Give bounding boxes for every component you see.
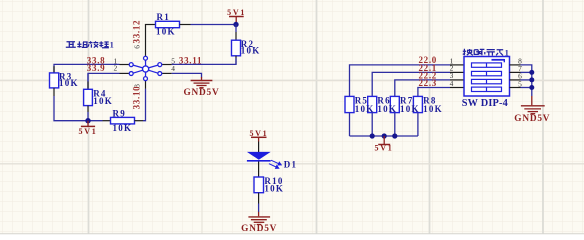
pin R3 bottom + wire to bottom rail — [53, 88, 55, 96]
svg-text:10K: 10K — [423, 104, 443, 114]
wire net 33.8 — [54, 64, 120, 73]
pin 3 stub of joystick — [145, 81, 147, 89]
pin R3 top — [53, 66, 55, 73]
wire net 22.2 — [395, 80, 450, 97]
label DIP switch (Chinese) 拨码开关1 — [463, 49, 503, 56]
svg-text:GND5V: GND5V — [514, 114, 550, 124]
svg-text:D1: D1 — [284, 160, 298, 170]
wire R1 to 5V1 junction — [191, 24, 237, 26]
junction dot pin7 — [529, 70, 534, 75]
LED D1 emission arrow 1 — [271, 160, 281, 165]
pin R4 top — [87, 82, 89, 90]
resistor R9 — [111, 117, 135, 124]
wire net 33.10 — [143, 89, 146, 121]
resistor R8 — [413, 96, 422, 112]
pin 5 stub of joystick — [162, 64, 172, 66]
ground GND5V (left block) — [191, 77, 213, 88]
svg-text:GND5V: GND5V — [183, 88, 219, 98]
wire R4 to bottom rail — [87, 112, 89, 121]
joystick center circle — [143, 66, 149, 72]
svg-text:33.9: 33.9 — [87, 63, 106, 73]
ground GND5V (DIP block) — [521, 96, 545, 114]
svg-text:33.11: 33.11 — [179, 55, 202, 65]
pin R2 top — [235, 32, 237, 40]
svg-text:4: 4 — [171, 64, 175, 73]
wire net 33.12 vertical (joystick pin6 to R1) — [145, 25, 147, 57]
pins 8-5 of SW DIP-4 — [510, 65, 521, 88]
svg-text:2: 2 — [114, 64, 118, 73]
svg-text:SW DIP-4: SW DIP-4 — [462, 98, 508, 109]
LED D1 triangle — [247, 152, 271, 160]
wire net 22.1 — [372, 72, 450, 96]
svg-text:10K: 10K — [377, 104, 397, 114]
svg-text:10K: 10K — [241, 46, 261, 56]
svg-text:33.10: 33.10 — [131, 86, 141, 110]
wire R7 to bottom rail — [394, 113, 396, 136]
switch element row 4 — [472, 87, 502, 91]
wire net 33.11 — [172, 58, 236, 64]
wire junction to R2 — [235, 25, 237, 33]
svg-text:10K: 10K — [93, 96, 113, 106]
power port 5V1 bottom left — [79, 121, 98, 136]
svg-text:10K: 10K — [264, 184, 284, 194]
power port 5V1 (DIP block) — [375, 136, 394, 152]
resistor R5 — [345, 96, 354, 112]
wire pin4 to GND5V — [172, 73, 202, 77]
svg-text:33.12: 33.12 — [131, 20, 141, 44]
pin R1 right — [180, 24, 191, 26]
power port 5V1 (LED) — [249, 129, 268, 142]
wire R8 to bottom rail — [417, 113, 419, 136]
wire D1 to R10 — [258, 162, 260, 178]
pin R9 left — [103, 120, 111, 122]
pin 2 stub of joystick — [120, 72, 130, 74]
junction dot at 5V1/R1/R2 — [233, 22, 238, 27]
junction dot pin5 — [529, 85, 534, 90]
junction dot bottom rail — [85, 118, 90, 123]
wire R6 to bottom rail — [371, 113, 373, 136]
switch element row 1 — [472, 63, 502, 67]
joystick pin circle left-bottom — [129, 72, 133, 76]
switch element row 2 — [472, 71, 502, 75]
pin 1 stub of joystick — [120, 64, 130, 66]
LED D1 cathode bar — [247, 160, 271, 162]
wire R10 to ground — [258, 204, 260, 213]
svg-text:10K: 10K — [156, 26, 176, 36]
wire R1 left (pin to wire corner) — [145, 24, 156, 26]
joystick pin circle right-bottom — [158, 72, 162, 76]
joystick switch S1 (five-way) — [133, 60, 158, 77]
wire net 33.9 — [88, 73, 120, 89]
svg-text:10K: 10K — [400, 104, 420, 114]
resistor R10 — [254, 177, 264, 193]
wire net 22.0 — [350, 65, 451, 97]
resistor R2 — [232, 40, 241, 56]
switch element row 3 — [472, 79, 502, 83]
svg-text:22.3: 22.3 — [418, 78, 437, 88]
svg-text:10K: 10K — [59, 78, 79, 88]
joystick pin circle bottom — [144, 77, 148, 81]
bottom rail wire — [350, 135, 418, 137]
resistor R7 — [390, 96, 399, 112]
resistor R4 — [84, 89, 93, 105]
DIP switch body SW1 — [464, 57, 510, 97]
pin R4 bottom — [87, 106, 89, 112]
power port 5V1 top — [227, 8, 246, 23]
wire 33.9 corner to R4 — [87, 73, 89, 81]
joystick pin circle left-top — [129, 63, 133, 67]
wire R3 to bottom rail — [54, 96, 103, 121]
svg-text:5V1: 5V1 — [375, 143, 394, 152]
svg-text:R9: R9 — [113, 109, 127, 119]
svg-text:10K: 10K — [355, 104, 375, 114]
junction dot R6 rail — [370, 133, 375, 138]
resistor R3 — [50, 73, 59, 88]
ground GND5V (LED block) — [248, 212, 270, 225]
wire net 22.3 — [418, 88, 450, 97]
pin D1 anode — [258, 142, 260, 153]
resistor R6 — [368, 96, 377, 112]
svg-text:1: 1 — [110, 41, 114, 50]
joystick pin circle top — [144, 56, 148, 60]
resistor R1 — [156, 21, 180, 27]
svg-text:GND5V: GND5V — [241, 224, 277, 234]
pin 4 stub of joystick — [162, 72, 172, 74]
junction dot pin6 — [529, 77, 534, 82]
label five-way button (Chinese) 五轴按键1 — [66, 41, 109, 47]
junction dot 5V1 rail — [382, 133, 387, 138]
svg-text:R1: R1 — [157, 12, 171, 22]
wire R5 to bottom rail — [349, 113, 351, 136]
joystick pin circle right-top — [158, 63, 162, 67]
actuator mark row 1 — [492, 59, 505, 62]
pin R10 bottom — [258, 193, 260, 204]
svg-text:5V1: 5V1 — [79, 127, 98, 136]
pin R2 bottom — [235, 56, 237, 65]
svg-text:10K: 10K — [113, 123, 133, 133]
pins 1-4 of SW DIP-4 — [450, 65, 464, 88]
junction dot R7 rail — [392, 133, 397, 138]
wire pins 8-5 to ground bus — [521, 65, 532, 96]
svg-text:5V1: 5V1 — [227, 8, 246, 17]
svg-text:6: 6 — [132, 45, 141, 49]
pin R9 right — [135, 120, 144, 122]
LED D1 emission arrow 2 — [269, 164, 279, 169]
